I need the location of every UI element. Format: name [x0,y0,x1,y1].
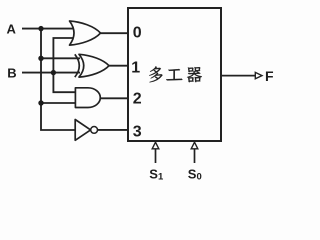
wire XOR top input from A bus [41,57,80,59]
wire output F [221,75,255,77]
AND gate [75,88,100,108]
wire AND output to mux input 2 [100,97,128,99]
node A junction on A line [38,26,43,31]
wire select S0 arrow stem [194,148,196,163]
arrowhead select S1 [152,142,159,149]
XOR gate [75,54,109,77]
wire XOR output to mux input 1 [109,65,128,67]
wire A vertical bus with NOT gate input stub [41,29,75,130]
OR gate [70,21,101,45]
wire A horizontal to OR gate top input [22,28,74,30]
wire OR output to mux input 0 [101,32,129,34]
node junction A bus to XOR input [38,56,43,61]
wire select S1 arrow stem [155,148,157,163]
arrowhead output F [255,72,262,78]
svg-text:1: 1 [131,59,140,76]
wire B vertical bus: OR bottom input, down to AND top input [53,38,75,92]
multiplexer box U1 [128,8,221,141]
wire AND bottom input from A bus [41,102,75,104]
svg-text:3: 3 [133,124,142,141]
node junction A bus to AND input [38,100,43,105]
mux title char duo [149,66,162,82]
svg-text:2: 2 [133,91,142,108]
arrowhead select S0 [191,142,198,149]
svg-text:0: 0 [133,25,142,42]
wire NOT output to mux input 3 [98,129,128,131]
NOT gate bubble [91,126,98,133]
wire B horizontal to XOR bottom input [22,72,80,74]
node B junction on B line [51,70,56,75]
NOT gate triangle [75,120,90,141]
mux title char qi [187,67,202,82]
mux title char gong [166,69,182,80]
svg-text:A: A [7,21,17,36]
svg-text:B: B [7,66,16,81]
svg-text:F: F [265,68,274,84]
